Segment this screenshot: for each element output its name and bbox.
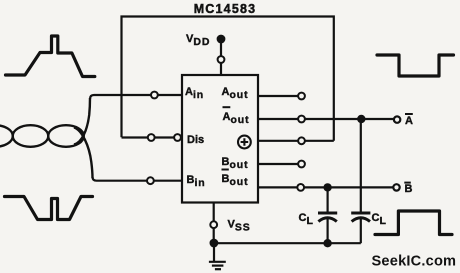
waveform: slow-rise input pulse with noise spike (top left) bbox=[6, 36, 95, 77]
junction dot at VSS/ground bbox=[210, 239, 219, 248]
VDD supply lead bbox=[220, 39, 222, 75]
waveform: inverted slow input pulse with noise spike (bottom left) bbox=[5, 197, 93, 220]
label Abar bbox=[405, 114, 413, 127]
pin circle on plus output bbox=[298, 137, 305, 144]
IC U1 body bbox=[182, 75, 258, 203]
capacitor CL left bbox=[318, 187, 337, 243]
wire: plus output to feedback loop bbox=[258, 140, 334, 142]
wire: A_in input bbox=[90, 95, 182, 99]
pin circle on Bbar_out bbox=[297, 184, 304, 191]
circled plus symbol bbox=[238, 136, 251, 149]
waveform: clean output pulse (bottom right) bbox=[375, 211, 452, 235]
pin label Abar_out bbox=[223, 107, 250, 126]
junction dot node A bbox=[357, 115, 365, 123]
svg-text:MC14583: MC14583 bbox=[194, 2, 257, 16]
twisted pair cable bbox=[0, 98, 93, 178]
pin circle B_out bbox=[298, 161, 305, 168]
svg-text:Dis: Dis bbox=[187, 134, 204, 146]
wire: ground bus to capacitors bbox=[214, 242, 361, 244]
waveform: clean inverted output pulse (top right) bbox=[377, 55, 454, 76]
terminal circle B bbox=[393, 184, 399, 190]
pin circle on Dis wire (left) bbox=[148, 134, 155, 141]
svg-text:SeekIC.com: SeekIC.com bbox=[372, 254, 457, 270]
label Bbar bbox=[404, 183, 412, 195]
wire: Dis input bbox=[122, 136, 183, 138]
pin circle on VSS lead bbox=[210, 221, 217, 228]
wire: feedback loop from plus output around top to Dis input bbox=[122, 17, 334, 141]
pin circle on VDD lead bbox=[218, 56, 225, 63]
pin circle on Abar_out bbox=[298, 116, 305, 123]
pin label Bbar_out bbox=[222, 170, 249, 189]
svg-text:A: A bbox=[405, 115, 413, 127]
VSS lead bbox=[213, 203, 215, 244]
terminal circle A bbox=[394, 116, 400, 122]
pin circle on Dis wire (at package) bbox=[174, 134, 181, 141]
svg-text:B: B bbox=[405, 183, 413, 195]
wire: A_out bbox=[258, 95, 301, 97]
capacitor CL right bbox=[351, 119, 370, 243]
pin circle on A_in wire bbox=[151, 92, 158, 99]
pin circle on B_in wire bbox=[147, 177, 154, 184]
wire: Abar_out to terminal A bbox=[258, 118, 394, 120]
junction dot on ground bus bbox=[323, 239, 331, 247]
wire: Bbar_out to terminal B bbox=[258, 186, 394, 188]
wire: B_out bbox=[258, 163, 301, 165]
VDD terminal dot bbox=[217, 35, 226, 44]
pin circle A_out bbox=[298, 93, 305, 100]
ground symbol bbox=[209, 243, 226, 269]
wire: B_in input bbox=[93, 177, 183, 181]
junction dot node B bbox=[323, 183, 331, 191]
